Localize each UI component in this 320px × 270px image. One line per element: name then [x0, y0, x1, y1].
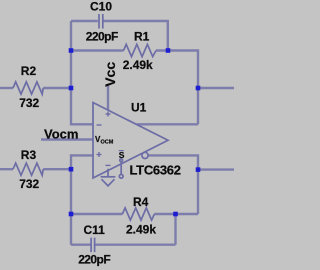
op-amp S-bar pin stub and circles [119, 159, 123, 178]
resistor R4 [122, 208, 154, 220]
svg-text:2.49k: 2.49k [126, 223, 156, 237]
wire left input vertical (top) [71, 21, 94, 124]
junction: R4 right / C11 feedback node [173, 212, 178, 217]
svg-text:OCM: OCM [101, 140, 114, 146]
svg-text:R4: R4 [133, 195, 149, 209]
resistor R2 [13, 82, 43, 94]
op-amp output inversion bubble [142, 152, 148, 158]
svg-text:2.49k: 2.49k [123, 58, 153, 72]
capacitor C11 [91, 238, 95, 253]
svg-text:S: S [119, 150, 125, 160]
wire bottom output terminal [198, 168, 234, 170]
junction: positive output terminal node [196, 86, 201, 91]
resistor R1 [124, 44, 157, 56]
wire top feedback row [71, 20, 98, 22]
wire R2 to input node [0, 87, 13, 89]
wire C11 row [71, 243, 91, 245]
ground [101, 169, 116, 186]
wire Vcc supply [107, 86, 109, 111]
svg-text:732: 732 [19, 96, 39, 110]
svg-text:732: 732 [19, 177, 39, 191]
wire Vocm input [41, 138, 94, 140]
pin label Vocm inside op-amp [95, 135, 114, 146]
junction: R3 to non-inverting input node [69, 167, 74, 172]
capacitor C10 [99, 14, 103, 29]
svg-text:LTC6362: LTC6362 [130, 163, 181, 178]
svg-text:C11: C11 [84, 223, 106, 237]
svg-text:U1: U1 [131, 101, 147, 115]
svg-text:R1: R1 [134, 29, 150, 43]
wire R4 row [71, 213, 122, 215]
svg-text:Vcc: Vcc [102, 62, 118, 87]
svg-text:220pF: 220pF [78, 253, 110, 267]
op-amp minus marker (inverting input) [97, 124, 102, 126]
op-amp plus marker (non-inverting input) [97, 152, 102, 157]
wire upper output [137, 123, 199, 125]
wire top output terminal [198, 87, 234, 89]
resistor R3 [13, 163, 43, 175]
wire R3 [0, 168, 13, 170]
op-amp S-bar overline [119, 150, 124, 152]
op-amp U1 triangle [93, 103, 168, 179]
junction: R1 right / C10 feedback node [166, 48, 171, 53]
junction: inverting input node / R1 branch [69, 48, 74, 53]
svg-text:C10: C10 [90, 0, 112, 14]
wire R1 row [71, 49, 124, 51]
junction: R2 to inverting input node [69, 86, 74, 91]
svg-text:R2: R2 [21, 64, 37, 78]
wire left input vertical (bottom) [71, 155, 94, 244]
svg-text:Vocm: Vocm [44, 126, 78, 141]
svg-text:220pF: 220pF [86, 29, 118, 43]
svg-text:R3: R3 [21, 148, 37, 162]
junction: negative output terminal node [196, 167, 201, 172]
wire C11 riser [174, 214, 176, 245]
wire lower output [148, 155, 198, 214]
junction: R4 left / non-inverting input node [69, 212, 74, 217]
op-amp minus marker (V- supply) [106, 164, 111, 166]
op-amp plus marker (V+ supply) [106, 112, 111, 117]
